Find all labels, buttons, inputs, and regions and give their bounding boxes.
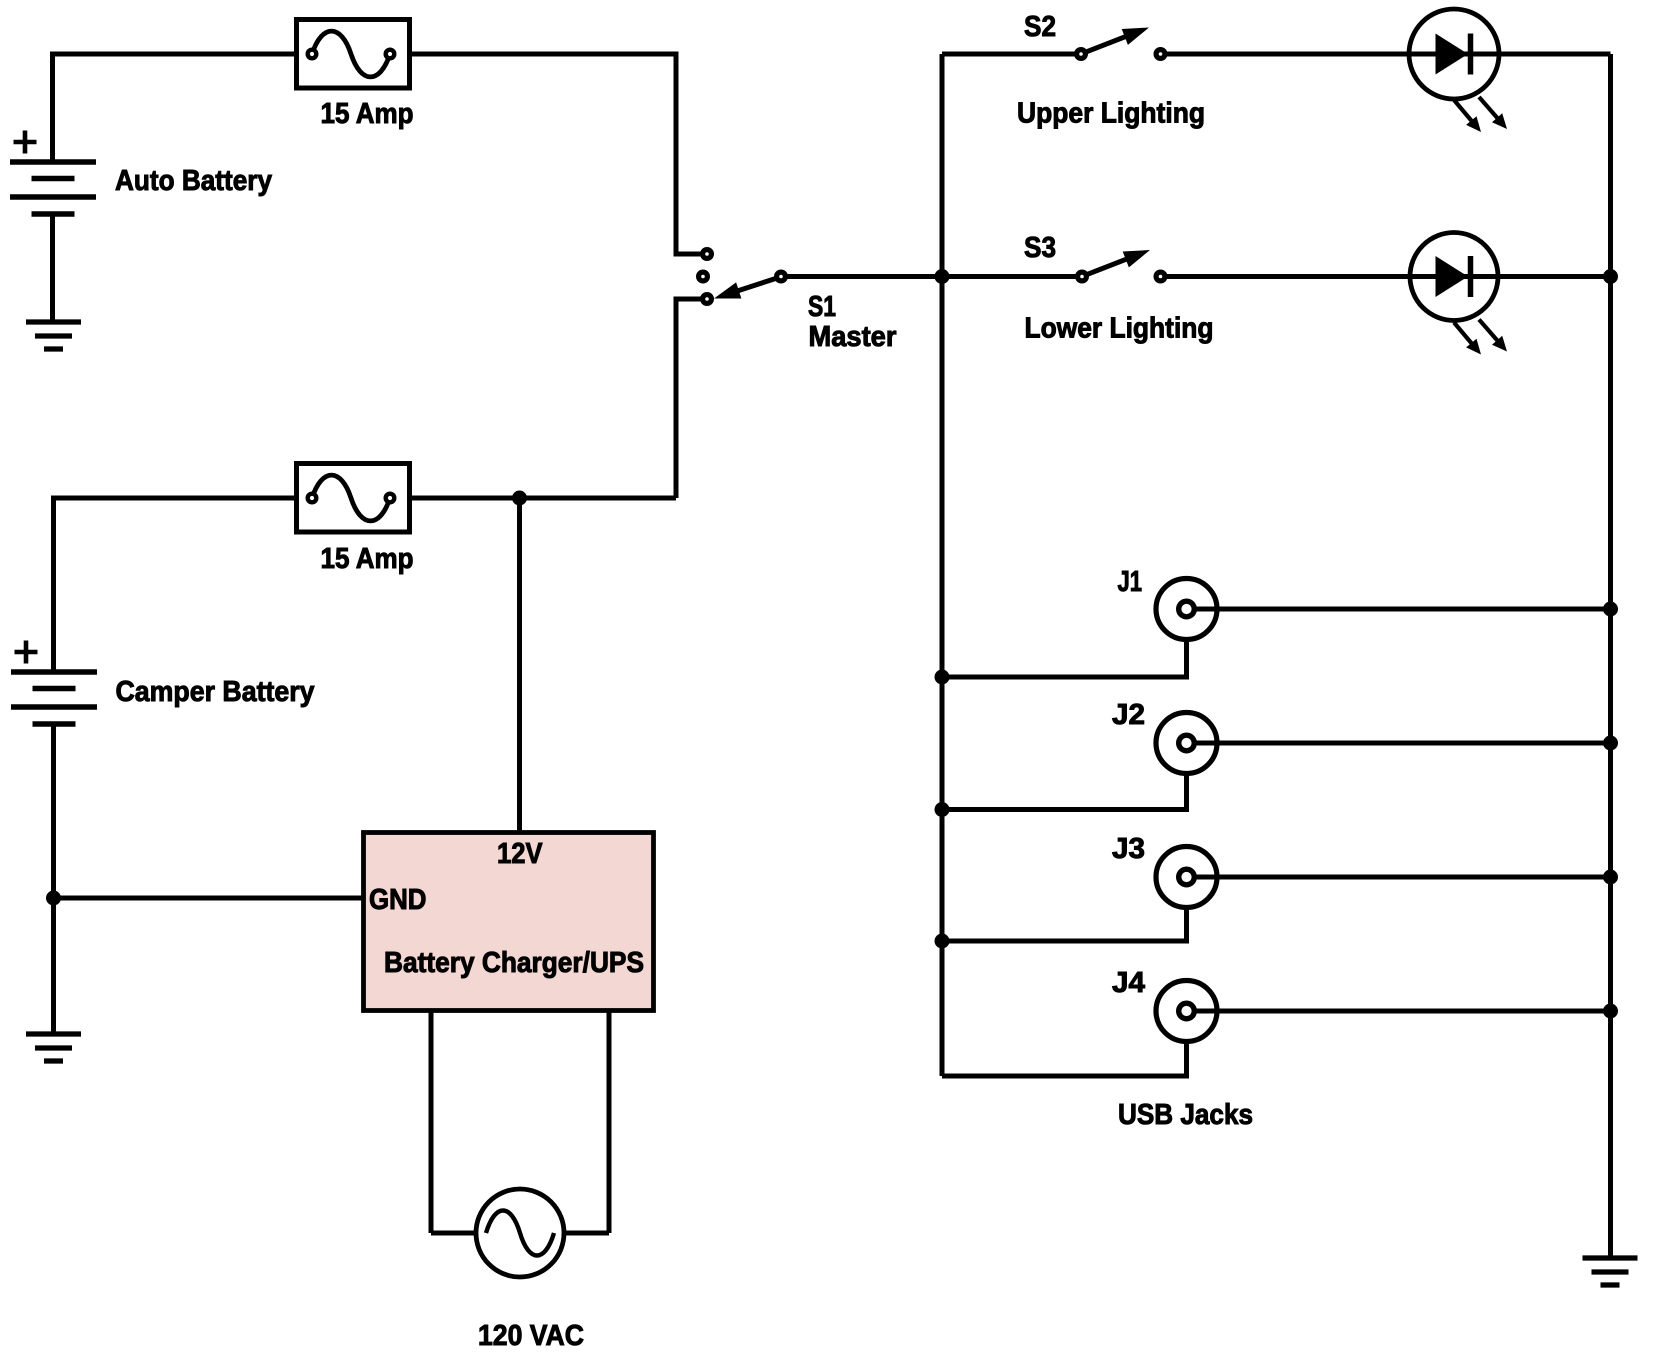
svg-text:15 Amp: 15 Amp [321, 543, 414, 575]
svg-text:15 Amp: 15 Amp [321, 98, 414, 130]
svg-text:J4: J4 [1112, 967, 1145, 999]
svg-text:S2: S2 [1024, 11, 1056, 43]
svg-text:J3: J3 [1112, 833, 1145, 865]
svg-text:S3: S3 [1024, 232, 1056, 264]
svg-text:J2: J2 [1112, 699, 1145, 731]
svg-text:Lower Lighting: Lower Lighting [1025, 313, 1214, 345]
svg-text:Auto Battery: Auto Battery [115, 165, 272, 197]
svg-text:S1: S1 [808, 291, 836, 323]
svg-text:GND: GND [369, 884, 427, 916]
svg-text:120 VAC: 120 VAC [478, 1320, 584, 1352]
svg-text:Upper Lighting: Upper Lighting [1017, 98, 1205, 130]
svg-text:USB Jacks: USB Jacks [1118, 1099, 1253, 1131]
svg-text:12V: 12V [497, 838, 543, 870]
svg-text:J1: J1 [1118, 566, 1143, 598]
svg-text:Camper Battery: Camper Battery [116, 676, 315, 708]
svg-text:Battery Charger/UPS: Battery Charger/UPS [384, 947, 644, 979]
svg-text:Master: Master [809, 321, 897, 353]
